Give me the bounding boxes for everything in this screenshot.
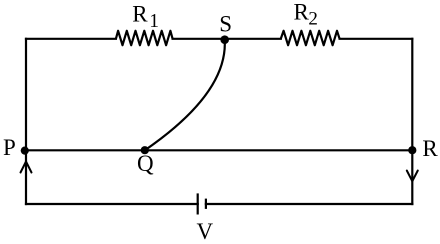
svg-text:R: R <box>132 2 148 27</box>
svg-text:R: R <box>294 0 310 25</box>
svg-text:S: S <box>219 11 232 36</box>
svg-text:1: 1 <box>149 11 159 32</box>
svg-text:R: R <box>422 136 438 161</box>
svg-text:Q: Q <box>137 151 154 176</box>
svg-text:V: V <box>197 219 214 244</box>
svg-text:2: 2 <box>308 9 318 30</box>
svg-text:P: P <box>3 135 16 160</box>
